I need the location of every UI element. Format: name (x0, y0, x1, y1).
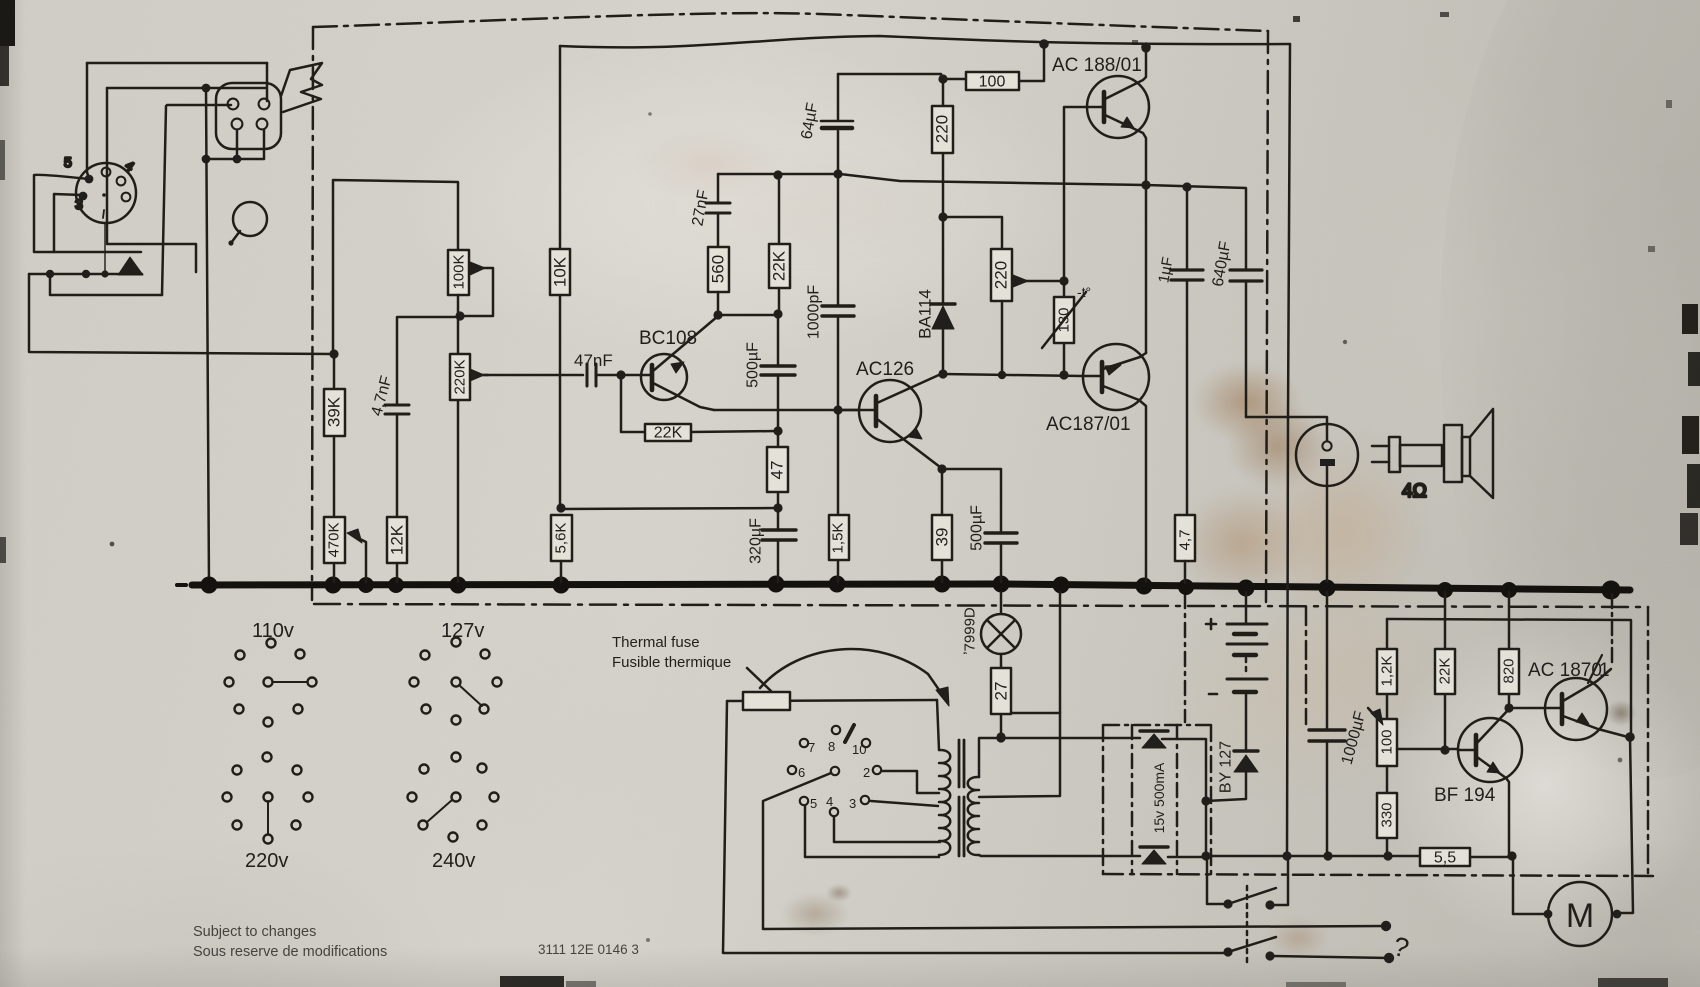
speaker plug body (1389, 437, 1400, 472)
node (1182, 182, 1191, 191)
transformer primary feed (937, 700, 939, 750)
selector pin 4 (830, 808, 838, 816)
wiper arrow of 220K pot (476, 374, 488, 377)
110v link (273, 681, 307, 683)
svg-text:Thermal fuse: Thermal fuse (612, 634, 700, 651)
svg-text:BF 194: BF 194 (1434, 785, 1496, 806)
wire: primary bottom to pin5 (805, 806, 939, 857)
wire: secondary bottom line (979, 855, 1140, 856)
speaker plug prongs (1372, 446, 1389, 462)
capacitor 1uF (1186, 188, 1189, 515)
wire: pin4 tap (834, 817, 940, 842)
DIN pin dot 5 (85, 175, 94, 184)
svg-text:500µF: 500µF (745, 342, 762, 388)
node (773, 426, 782, 435)
svg-text:M: M (1566, 897, 1594, 935)
svg-text:3111 12E 0146 3: 3111 12E 0146 3 (538, 942, 639, 957)
transformer secondary winding (968, 777, 979, 855)
wiper of 100 pot (1368, 708, 1378, 719)
battery plus sign (1206, 619, 1216, 629)
node (833, 169, 842, 178)
wire: secondary tap to bus (979, 592, 1060, 797)
diode BY127 (1245, 694, 1248, 750)
wire: top loop right vertical into connector (266, 63, 269, 101)
node (998, 371, 1006, 379)
node (1504, 703, 1513, 712)
svg-text:100: 100 (1379, 729, 1396, 754)
node (1440, 745, 1449, 754)
resistor 39K (333, 354, 336, 517)
capacitor 500uF (AC126 emitter) (985, 533, 1017, 543)
wire: rail corner to 10K (559, 46, 562, 249)
resistor 220K (457, 316, 460, 582)
resistor 10K (550, 249, 570, 295)
wire: DIN pin5 outer loop (34, 175, 141, 252)
jack tail (231, 231, 240, 243)
wire: left vertical from y88 down and across (107, 88, 196, 272)
mains terminal dot upper (1381, 921, 1391, 931)
mains cable hand/flag shape (281, 63, 322, 112)
resistor 5,6K (551, 515, 572, 561)
resistor 27 (1000, 654, 1003, 736)
dash-dot stub right of bus (4,7 branch) (1184, 594, 1187, 722)
svg-text:100K: 100K (451, 254, 468, 289)
wire: pin3 tap (871, 801, 938, 806)
wire: 560 node across to 22K node (718, 314, 778, 317)
motor terminals (1544, 910, 1553, 919)
wire: motor left feed (1513, 856, 1548, 914)
diode: pickup arrow triangle (118, 257, 143, 275)
svg-text:22K: 22K (654, 425, 683, 442)
node (1039, 39, 1049, 49)
dial lamp (981, 614, 1021, 654)
rectifier dash-dot box outline (1103, 725, 1211, 874)
resistor 22K (driver load) (778, 175, 781, 314)
switch pole 1 (1207, 856, 1288, 905)
wire: BC108 base down to 22K (621, 376, 645, 432)
node: AC126 emitter junction (937, 464, 946, 473)
svg-text:5,6K: 5,6K (553, 523, 570, 554)
resistor 820 (1508, 592, 1511, 708)
rectifier diode bottom (1140, 845, 1168, 848)
capacitor 64uF (837, 74, 840, 173)
voltage selector 110v pins (225, 639, 317, 727)
scan artifact: bottom edge band (500, 976, 564, 987)
resistor 5,5 (1420, 848, 1470, 866)
capacitor 4,7nF (385, 405, 409, 414)
curved arrow over transformer (760, 649, 944, 697)
DIN connector circle (76, 163, 136, 223)
wire: 64uF top to 100 resistor node (838, 73, 941, 76)
node (1201, 851, 1210, 860)
node (1201, 796, 1210, 805)
svg-text:AC 188/01: AC 188/01 (1052, 55, 1142, 76)
potentiometer 100 (1377, 719, 1397, 766)
svg-text:4Ω: 4Ω (1402, 481, 1427, 502)
transistor BC108 (641, 354, 687, 400)
svg-text:12K: 12K (388, 524, 407, 555)
svg-text:560: 560 (709, 255, 728, 283)
node (773, 170, 782, 179)
rectifier diode top (1140, 729, 1168, 732)
wire: lower return line with taps (29, 273, 142, 276)
ink speck (110, 542, 115, 547)
ground bus lead-in dash (177, 583, 186, 587)
dial lamp feed (1000, 592, 1003, 613)
node (1323, 851, 1332, 860)
capacitor 640uF (1245, 189, 1248, 417)
svg-text:AC126: AC126 (856, 359, 914, 380)
svg-text:ʼ7999D: ʼ7999D (962, 607, 979, 655)
svg-text:47nF: 47nF (574, 351, 613, 370)
node (202, 84, 211, 93)
svg-text:1,5K: 1,5K (830, 523, 847, 554)
slash through AC 1870 label (1588, 655, 1602, 683)
wire: low-voltage line y856 (1168, 856, 1512, 857)
svg-text:22K: 22K (770, 250, 789, 281)
scan artifact: top edge specks (1293, 16, 1300, 22)
svg-text:5: 5 (64, 154, 72, 170)
svg-text:220K: 220K (452, 359, 469, 394)
wire: BF194 base line (1397, 748, 1458, 751)
svg-text:4: 4 (826, 794, 833, 809)
svg-text:15v 500mA: 15v 500mA (1151, 762, 1167, 833)
svg-text:1000pF: 1000pF (806, 285, 823, 339)
dash-dot box motor section left (1305, 607, 1308, 724)
wire: 5,6K node to 320uF node (561, 508, 778, 509)
voltage selector 127v pins (410, 638, 502, 725)
node (101, 270, 108, 277)
node: 560 bottom (713, 310, 722, 319)
node (833, 405, 842, 414)
svg-text:240v: 240v (432, 850, 475, 872)
node (938, 74, 947, 83)
capacitor 1000pF (837, 175, 840, 408)
motor M (1548, 882, 1612, 946)
svg-text:Fusible thermique: Fusible thermique (612, 654, 731, 671)
svg-text:220v: 220v (245, 850, 288, 872)
svg-text:Sous reserve de modifications: Sous reserve de modifications (193, 944, 387, 960)
connector pin (228, 99, 239, 110)
bus junction dots (201, 576, 1621, 600)
wire: 27 bottom jog (1011, 712, 1060, 715)
wire: to 220 pot (943, 217, 1002, 249)
wire: emitter line to AC126 base (714, 409, 859, 412)
DIN open pin (117, 177, 126, 186)
scan artifact: top-left black corner (0, 0, 15, 46)
wire: emitter node to 500uF2 (942, 469, 1001, 532)
speaker cone (1470, 409, 1493, 498)
wire: 640uF to jack (1246, 416, 1326, 419)
svg-text:330: 330 (1379, 802, 1396, 827)
long rail y174 (718, 174, 1246, 188)
wire: second horizontal to connector (107, 87, 266, 90)
svg-text:127v: 127v (441, 620, 484, 642)
wire: long vertical from connector to ground bus (206, 88, 209, 585)
capacitor 320uF (777, 509, 780, 582)
thermistor 130 (1063, 281, 1066, 374)
DIN open pin (102, 168, 111, 177)
node (996, 732, 1005, 741)
node (202, 155, 211, 164)
wire: connector lower pins to row (206, 130, 264, 159)
wire: outer left vertical down to long horizontal (29, 274, 334, 354)
wire: faint DIN centre drop (104, 224, 106, 272)
svg-text:47: 47 (768, 461, 787, 480)
svg-text:8: 8 (828, 739, 835, 754)
node (773, 503, 782, 512)
capacitor 1000uF (1326, 592, 1329, 856)
wire: top loop left vertical to DIN pin 5 (87, 63, 89, 179)
svg-text:5: 5 (810, 796, 817, 811)
svg-text:AC187/01: AC187/01 (1046, 414, 1131, 435)
wire: 100 resistor feed (943, 44, 1044, 81)
svg-text:BY 127: BY 127 (1218, 741, 1235, 793)
node (1282, 851, 1291, 860)
svg-text:130: 130 (1056, 307, 1073, 332)
dash-dot box motor section right (1647, 607, 1650, 875)
node (996, 733, 1005, 742)
selector pin 7 (800, 739, 808, 747)
svg-text:BA114: BA114 (916, 289, 935, 339)
switch pole 2 (1223, 947, 1232, 956)
battery pack (1245, 592, 1248, 623)
svg-text:470K: 470K (326, 522, 343, 557)
wire: 100K top loop (333, 180, 458, 353)
connector pin (232, 119, 243, 130)
mains connector body (216, 83, 281, 149)
node (1141, 180, 1150, 189)
resistor 39 (941, 470, 944, 582)
wire: AC187 collector to output rail (1145, 187, 1148, 353)
rail to AC187-01 emitter (1387, 619, 1631, 735)
node (46, 270, 54, 278)
dashed collector riser to bus (1611, 594, 1614, 667)
speaker magnet (1444, 425, 1462, 482)
svg-text:Subject to changes: Subject to changes (193, 924, 316, 940)
mains terminal dot lower (1384, 953, 1394, 963)
svg-text:1,2K: 1,2K (1379, 656, 1396, 687)
transformer core (959, 740, 964, 856)
resistor 220 (bias pot) (991, 249, 1012, 301)
paper shading patches (150, 540, 1050, 960)
node (1141, 43, 1150, 52)
wiper loop of 100K pot (460, 268, 493, 316)
svg-text:-t°: -t° (1077, 284, 1091, 300)
transistor AC126 (859, 380, 921, 442)
diode BA114 (942, 219, 945, 372)
headphone jack Q symbol (233, 202, 267, 236)
wiper of 470K volume pot (354, 536, 366, 582)
wire: third horizontal to connector pin (167, 104, 231, 107)
connector pin (259, 99, 270, 110)
thermal fuse (743, 692, 790, 710)
DIN open pin (122, 193, 131, 202)
node (1059, 276, 1068, 285)
svg-text:3: 3 (75, 196, 83, 212)
wire: BF194 collector to AC187-01 base (1509, 707, 1545, 710)
resistor 220 (AC188 base feed) (942, 79, 945, 217)
right border solid vertical (1287, 44, 1290, 856)
svg-text:27: 27 (992, 682, 1011, 701)
svg-text:10: 10 (852, 742, 866, 757)
node (233, 155, 242, 164)
svg-text:110v: 110v (252, 620, 294, 642)
resistor 47 (777, 432, 780, 508)
node (938, 212, 947, 221)
svg-text:3: 3 (849, 796, 856, 811)
resistor 22K feedback (645, 424, 691, 441)
node: 100K/220K junction (455, 311, 464, 320)
chassis dash-dot border top (313, 13, 1268, 31)
svg-text:10K: 10K (551, 256, 570, 287)
resistor 22K (motor section) (1444, 592, 1447, 750)
chassis dash-dot border right (1266, 31, 1268, 602)
jack tail dot (228, 240, 233, 245)
resistor 560 (708, 247, 729, 292)
node (773, 309, 782, 318)
wire: DIN pin3 lead (54, 194, 82, 252)
svg-text:2: 2 (863, 765, 870, 780)
chassis dash-dot below ground bus (314, 604, 1648, 607)
battery minus sign (1209, 693, 1217, 696)
ground bus (192, 584, 1630, 590)
switch linkage dashed (1246, 886, 1249, 963)
selector pin 6 (788, 766, 796, 774)
svg-text:500µF: 500µF (969, 505, 986, 551)
selector pin 3 (861, 796, 869, 804)
voltage selector 240v pins (408, 753, 499, 842)
resistor 4,7 (1175, 515, 1195, 561)
svg-text:320µF: 320µF (748, 518, 765, 564)
node A: 39K top junction (329, 349, 338, 358)
transformer primary winding (939, 750, 950, 855)
wire: top rail corner down to 27nF (717, 174, 720, 202)
node (1141, 42, 1151, 52)
wiper arrow of 220 pot (1022, 280, 1064, 283)
wire: AC187 base line (943, 374, 1082, 376)
transistor AC188/01 (1087, 76, 1149, 138)
selector pin 10 (862, 739, 870, 747)
scan artifact: right edge blobs (1682, 304, 1698, 334)
220v link (267, 801, 269, 834)
svg-text:BC108: BC108 (639, 328, 697, 349)
wire: top loop upper horizontal (87, 62, 267, 65)
wire: emitter node down to motor (1617, 737, 1633, 913)
resistor 470K (333, 563, 336, 582)
DIN centre mark (102, 193, 106, 197)
selector common lever and wire to mains terminal (763, 773, 1386, 929)
capacitor 27nF (706, 203, 730, 213)
pointer line from fuse label (747, 668, 771, 691)
svg-text:39K: 39K (325, 396, 344, 427)
svg-text:5,5: 5,5 (1434, 850, 1456, 867)
svg-text:6: 6 (798, 765, 805, 780)
node: BC108 base (616, 370, 625, 379)
svg-text:220: 220 (992, 261, 1011, 289)
top rail y46 (560, 36, 1290, 47)
svg-text:220: 220 (933, 115, 952, 143)
svg-text:39: 39 (933, 528, 952, 547)
selector pin 5 (800, 797, 808, 805)
node (1383, 851, 1392, 860)
enclosure left and bottom wire to switch (723, 701, 1228, 953)
node (1059, 370, 1068, 379)
127v link (459, 685, 482, 706)
svg-text:22K: 22K (1437, 658, 1454, 685)
resistor 12K (387, 517, 407, 563)
wire: junction to 4,7nF branch (397, 317, 455, 404)
voltage selector 220v pins (223, 753, 313, 844)
DIN bottom tick (103, 210, 104, 218)
resistor 100 (966, 72, 1019, 90)
selector slash mark (845, 725, 854, 742)
node: AC126 collector junction (938, 369, 947, 378)
selector pin 8 (832, 726, 840, 734)
transistor AC187/01 (1083, 344, 1149, 410)
svg-text:7: 7 (808, 740, 815, 755)
svg-text:4,7: 4,7 (1177, 530, 1194, 551)
capacitor 500uF (777, 314, 780, 430)
wire: short jog under pickup (50, 275, 162, 295)
transistor AC187/01 (motor) (1545, 678, 1607, 740)
transistor BF194 (1458, 718, 1522, 782)
resistor 100K (448, 250, 469, 295)
capacitor 47nF (587, 364, 596, 386)
speaker cable shaft (1400, 445, 1442, 466)
speaker small frame (1462, 437, 1470, 476)
resistor 12K (motor section) (1386, 619, 1389, 719)
node: 5,6K top (556, 503, 565, 512)
headphone jack socket (1296, 424, 1358, 486)
selector pin 2 (873, 766, 881, 774)
wire: secondary top (979, 738, 1103, 777)
resistor 330 (1386, 766, 1389, 856)
240v link (427, 800, 452, 822)
DIN pin dot 3 (79, 192, 88, 201)
node (1507, 851, 1516, 860)
brown stains (1192, 362, 1302, 442)
selector centre pin (831, 767, 839, 775)
wire: signal line to 47nF (484, 374, 583, 377)
resistor 1,5K (837, 411, 840, 582)
dash-dot bottom edge of motor/rectifier boxes (1103, 874, 1653, 876)
connector pin (257, 119, 268, 130)
node (82, 270, 90, 278)
wire: pin2 tap (882, 771, 939, 793)
svg-text:1: 1 (1599, 660, 1610, 681)
enclosure top line (727, 700, 937, 701)
chassis dash-dot border left (312, 27, 313, 600)
svg-text:820: 820 (1501, 658, 1518, 683)
rectifier dash-dot inner dividers (1132, 725, 1177, 874)
node: AC187-01 emitter junction (1625, 732, 1635, 742)
svg-text:100: 100 (979, 74, 1006, 91)
wire: vertical from connector pin row (162, 106, 166, 295)
